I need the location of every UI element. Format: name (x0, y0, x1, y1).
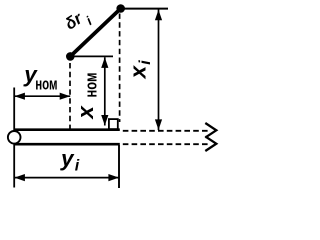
arrow: lower chevron (205, 136, 216, 151)
wire: dashed vertical from lower dot (69, 63, 71, 129)
dimension y_nom: left arrowhead (14, 93, 25, 100)
dimension x_nom: top arrowhead (101, 57, 108, 68)
label delta r_i (rotated along lever) (62, 6, 95, 39)
svg-text:x: x (125, 64, 150, 79)
label x_i (rotated) (125, 60, 154, 80)
svg-text:ном: ном (35, 75, 57, 94)
dimension x_nom: bottom arrowhead (101, 115, 108, 126)
arrow: upper chevron (205, 123, 216, 138)
wire: right vertical extension line (118, 145, 120, 188)
svg-text:x: x (73, 105, 98, 120)
dimension y_i: right arrowhead (108, 174, 119, 181)
dimension y_nom: right arrowhead (60, 93, 70, 100)
dimension x_i: bottom arrowhead (155, 119, 162, 129)
wire: left vertical extension line (13, 88, 15, 188)
wire: upper dashed horizontal with arrow (123, 130, 208, 132)
dimension x_nom: line (104, 57, 106, 125)
svg-text:i: i (83, 13, 95, 28)
contact square on bar end (109, 119, 118, 129)
node: upper pivot dot (116, 4, 125, 13)
dimension y_nom: line (14, 95, 70, 97)
svg-text:δr: δr (62, 9, 87, 34)
node: lower pivot dot (66, 52, 75, 61)
dimension y_i: line (14, 177, 119, 179)
dimension x_i: line (158, 10, 160, 131)
lever arm delta r_i (slanted thick line) (70, 9, 120, 57)
wire: top horizontal line from upper dot (121, 8, 168, 10)
label x_nom (rotated) (73, 73, 100, 120)
wire: thin horizontal line from lower dot (70, 55, 113, 57)
pivot circle (8, 131, 21, 144)
wire: lower dashed horizontal with arrow (123, 143, 208, 145)
dimension y_i: left arrowhead (14, 174, 25, 181)
wire: lever bar top line (14, 128, 120, 131)
svg-text:i: i (137, 60, 154, 65)
dimension x_i: top arrowhead (155, 10, 162, 21)
wire: lever bar bottom line (14, 143, 120, 146)
wire: dashed vertical from upper dot (119, 14, 121, 123)
svg-text:y: y (60, 146, 75, 171)
svg-text:ном: ном (81, 73, 100, 98)
svg-text:i: i (75, 157, 80, 174)
